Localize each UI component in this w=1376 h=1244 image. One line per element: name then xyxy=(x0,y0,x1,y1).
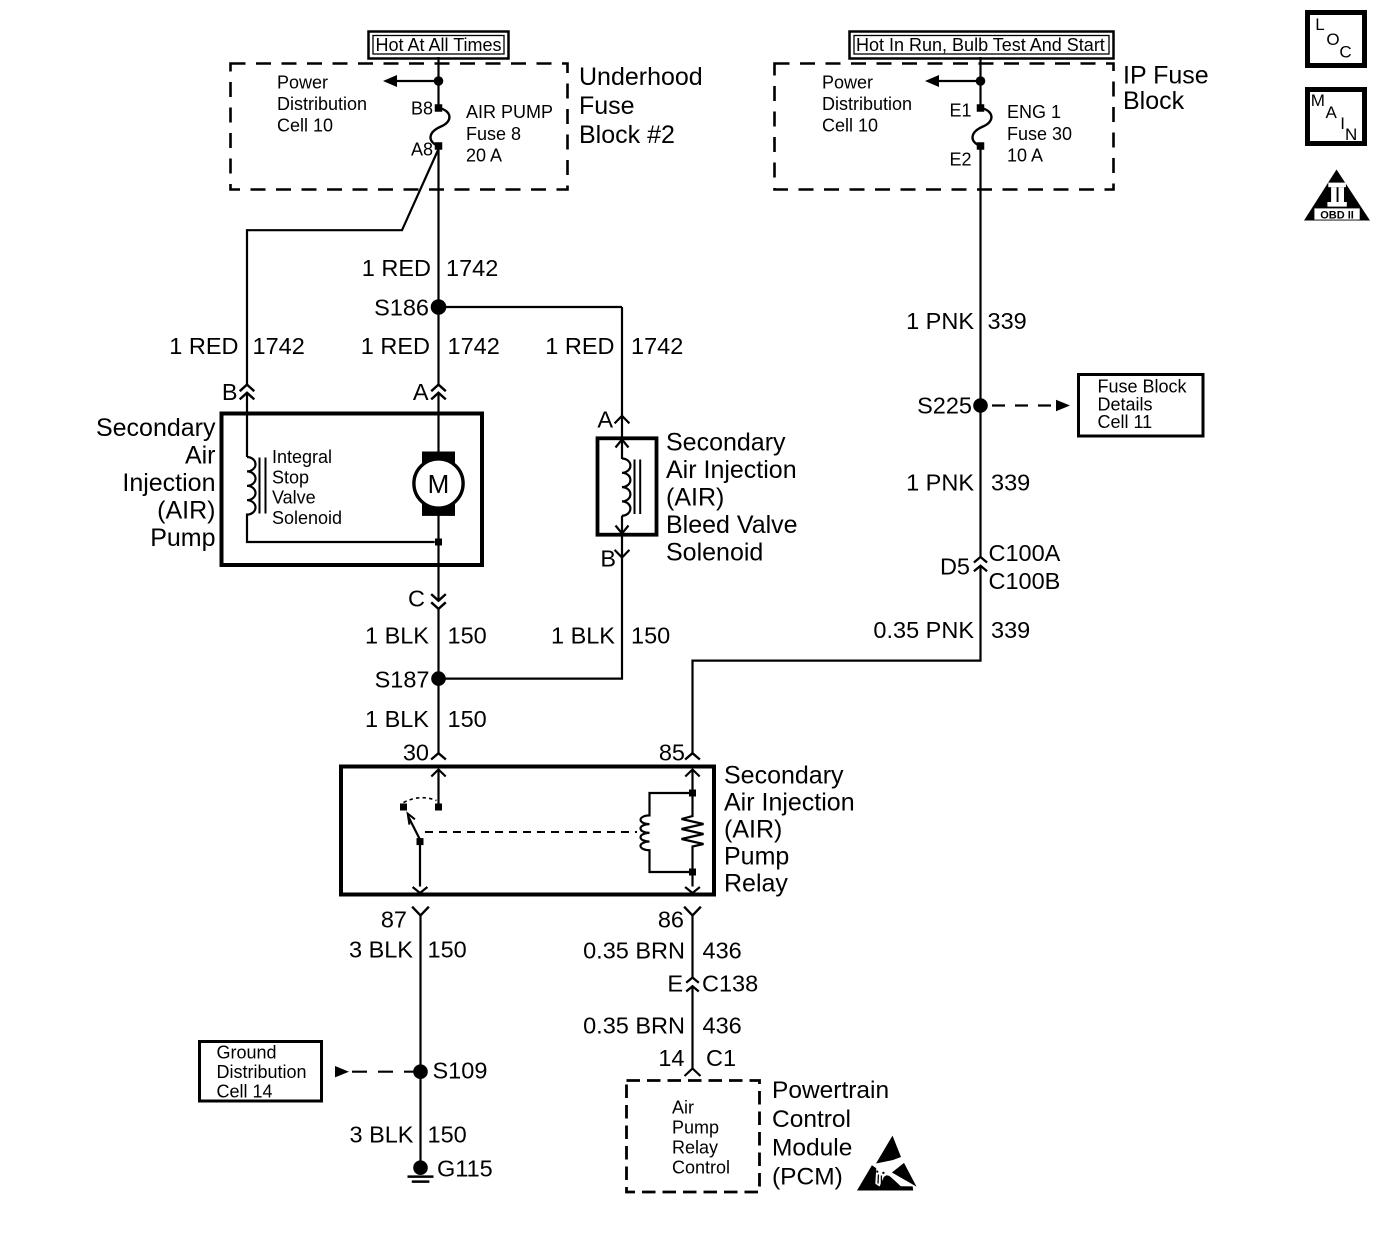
svg-text:A: A xyxy=(597,407,613,433)
svg-text:B8: B8 xyxy=(411,99,433,119)
svg-text:O: O xyxy=(1326,30,1339,49)
svg-text:Pump: Pump xyxy=(672,1118,719,1138)
svg-text:436: 436 xyxy=(703,938,742,964)
svg-text:Distribution: Distribution xyxy=(822,94,912,114)
svg-text:1 PNK: 1 PNK xyxy=(906,308,974,334)
svg-text:30: 30 xyxy=(403,740,429,766)
svg-text:Secondary: Secondary xyxy=(96,414,216,442)
svg-text:1742: 1742 xyxy=(448,333,500,359)
svg-text:Power: Power xyxy=(822,73,873,93)
svg-text:1742: 1742 xyxy=(631,333,683,359)
svg-text:Air Injection: Air Injection xyxy=(666,456,797,484)
svg-text:1 RED: 1 RED xyxy=(545,333,614,359)
svg-text:(AIR): (AIR) xyxy=(724,816,782,844)
svg-text:Cell 10: Cell 10 xyxy=(822,116,878,136)
svg-text:1742: 1742 xyxy=(446,255,498,281)
svg-text:C138: C138 xyxy=(702,971,758,997)
svg-text:A8: A8 xyxy=(411,140,433,160)
svg-text:M: M xyxy=(428,469,450,499)
svg-text:Integral: Integral xyxy=(272,447,332,467)
svg-text:1 RED: 1 RED xyxy=(361,333,430,359)
svg-text:Block #2: Block #2 xyxy=(579,121,675,149)
svg-text:Valve: Valve xyxy=(272,488,316,508)
svg-text:D5: D5 xyxy=(940,554,970,580)
svg-text:Secondary: Secondary xyxy=(666,429,786,457)
svg-text:IP Fuse: IP Fuse xyxy=(1123,62,1209,90)
svg-text:Pump: Pump xyxy=(724,843,789,871)
svg-text:C100A: C100A xyxy=(989,540,1061,566)
svg-text:Cell 10: Cell 10 xyxy=(277,116,333,136)
svg-text:Hot At All Times: Hot At All Times xyxy=(376,35,502,55)
svg-text:C100B: C100B xyxy=(989,568,1061,594)
svg-text:339: 339 xyxy=(988,308,1027,334)
svg-text:Solenoid: Solenoid xyxy=(666,539,763,567)
svg-text:3 BLK: 3 BLK xyxy=(349,1122,413,1148)
svg-text:Air: Air xyxy=(672,1098,694,1118)
svg-text:(AIR): (AIR) xyxy=(157,497,215,525)
svg-text:150: 150 xyxy=(428,937,467,963)
svg-text:ENG 1: ENG 1 xyxy=(1007,102,1061,122)
svg-text:B: B xyxy=(222,379,238,405)
svg-text:AIR PUMP: AIR PUMP xyxy=(466,102,553,122)
svg-text:86: 86 xyxy=(658,907,684,933)
svg-text:14: 14 xyxy=(658,1045,684,1071)
svg-text:150: 150 xyxy=(448,706,487,732)
svg-text:C: C xyxy=(1339,43,1351,62)
svg-text:E1: E1 xyxy=(949,101,971,121)
svg-text:A: A xyxy=(1326,103,1338,122)
svg-text:Fuse 30: Fuse 30 xyxy=(1007,124,1072,144)
svg-text:1 RED: 1 RED xyxy=(169,333,238,359)
svg-text:Block: Block xyxy=(1123,87,1185,115)
svg-text:1 RED: 1 RED xyxy=(362,255,431,281)
svg-text:Secondary: Secondary xyxy=(724,762,844,790)
svg-text:3 BLK: 3 BLK xyxy=(349,937,413,963)
svg-text:10 A: 10 A xyxy=(1007,146,1043,166)
svg-text:B: B xyxy=(600,546,616,572)
svg-text:Fuse 8: Fuse 8 xyxy=(466,124,521,144)
svg-text:Pump: Pump xyxy=(150,524,215,552)
svg-text:Bleed Valve: Bleed Valve xyxy=(666,511,798,539)
svg-text:(AIR): (AIR) xyxy=(666,484,724,512)
svg-text:C: C xyxy=(408,586,425,612)
svg-text:Relay: Relay xyxy=(672,1138,718,1158)
svg-text:OBD II: OBD II xyxy=(1320,209,1354,221)
svg-text:Control: Control xyxy=(672,1158,730,1178)
svg-text:S187: S187 xyxy=(375,667,430,693)
svg-text:Cell 11: Cell 11 xyxy=(1098,412,1153,432)
svg-text:Power: Power xyxy=(277,73,328,93)
svg-text:1742: 1742 xyxy=(253,333,305,359)
svg-text:1 PNK: 1 PNK xyxy=(906,470,974,496)
svg-text:150: 150 xyxy=(428,1122,467,1148)
svg-text:S109: S109 xyxy=(433,1058,488,1084)
svg-text:1 BLK: 1 BLK xyxy=(551,623,615,649)
svg-text:Air: Air xyxy=(185,442,216,470)
svg-text:(PCM): (PCM) xyxy=(772,1163,843,1190)
svg-text:150: 150 xyxy=(448,623,487,649)
svg-text:Distribution: Distribution xyxy=(217,1062,307,1082)
svg-text:Air Injection: Air Injection xyxy=(724,789,855,817)
svg-text:Hot In Run, Bulb Test And Star: Hot In Run, Bulb Test And Start xyxy=(856,35,1105,55)
svg-text:Distribution: Distribution xyxy=(277,94,367,114)
svg-text:1 BLK: 1 BLK xyxy=(365,623,429,649)
svg-text:N: N xyxy=(1345,125,1357,144)
svg-text:M: M xyxy=(1311,91,1325,110)
svg-text:S186: S186 xyxy=(374,295,429,321)
svg-text:1 BLK: 1 BLK xyxy=(365,706,429,732)
svg-text:150: 150 xyxy=(631,623,670,649)
svg-text:Injection: Injection xyxy=(122,469,215,497)
svg-text:Fuse: Fuse xyxy=(579,92,635,120)
svg-text:E2: E2 xyxy=(949,150,971,170)
svg-text:G115: G115 xyxy=(437,1156,493,1182)
svg-text:Powertrain: Powertrain xyxy=(772,1077,889,1104)
svg-text:87: 87 xyxy=(381,907,407,933)
svg-text:Solenoid: Solenoid xyxy=(272,508,342,528)
svg-text:20 A: 20 A xyxy=(466,146,502,166)
svg-text:A: A xyxy=(413,379,429,405)
svg-text:85: 85 xyxy=(659,740,685,766)
svg-text:Relay: Relay xyxy=(724,870,788,898)
svg-text:0.35 PNK: 0.35 PNK xyxy=(873,617,974,643)
svg-text:Ground: Ground xyxy=(217,1042,277,1062)
svg-text:C1: C1 xyxy=(706,1045,736,1071)
svg-text:S225: S225 xyxy=(917,393,972,419)
svg-text:L: L xyxy=(1315,15,1324,34)
svg-text:0.35 BRN: 0.35 BRN xyxy=(583,1013,685,1039)
svg-text:0.35 BRN: 0.35 BRN xyxy=(583,938,685,964)
svg-text:Stop: Stop xyxy=(272,467,309,487)
svg-text:339: 339 xyxy=(991,617,1030,643)
svg-text:Underhood: Underhood xyxy=(579,63,703,91)
svg-text:E: E xyxy=(667,971,683,997)
svg-text:Control: Control xyxy=(772,1106,851,1133)
svg-text:Cell 14: Cell 14 xyxy=(217,1081,273,1101)
svg-text:Module: Module xyxy=(772,1135,852,1162)
svg-text:436: 436 xyxy=(703,1013,742,1039)
svg-text:339: 339 xyxy=(991,470,1030,496)
